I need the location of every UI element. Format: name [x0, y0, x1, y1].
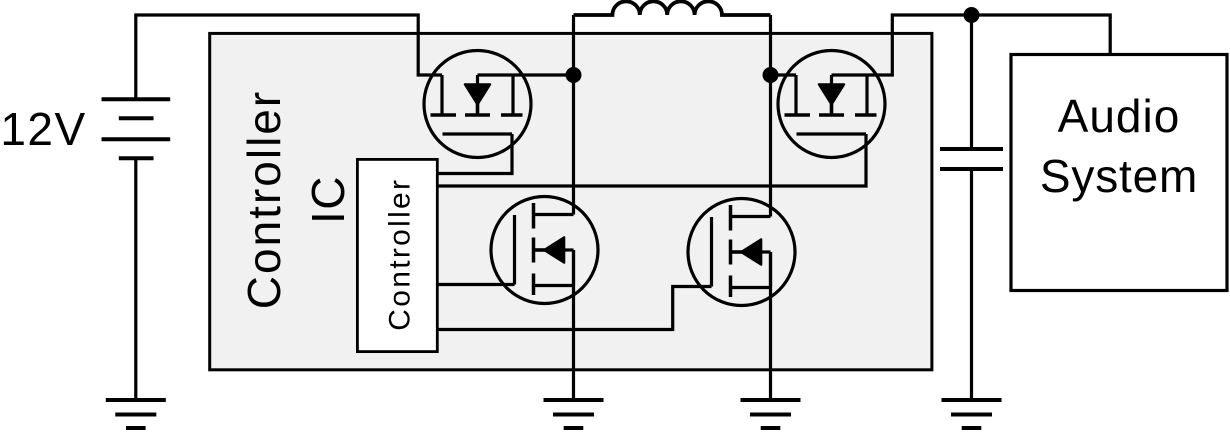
wire: Q1 drain to switch node SW1	[513, 73, 574, 76]
transistor Q2 (high-side boost MOSFET)	[778, 51, 885, 158]
ground (Q3 source)	[544, 400, 604, 428]
node SW1 junction dot	[566, 67, 582, 83]
node VOUT junction dot	[964, 7, 980, 23]
wire: Q3 source to ground	[572, 250, 575, 400]
Audio System box	[1011, 55, 1227, 291]
wire: Q2 drain to output rail to Audio System	[867, 15, 1110, 75]
transistor Q1 (high-side buck MOSFET)	[424, 51, 531, 158]
wire: Q4 gate to controller	[438, 287, 712, 330]
Controller IC box	[210, 33, 932, 369]
battery V1 12V	[102, 99, 171, 158]
svg-text:12V: 12V	[0, 103, 86, 155]
svg-text:Controller: Controller	[238, 90, 290, 309]
controller sub-block U1	[357, 159, 437, 351]
ground (battery)	[106, 400, 166, 428]
capacitor C1	[940, 149, 1003, 169]
wire: output node to capacitor C1	[970, 15, 973, 149]
wire: Q3 gate to controller	[438, 283, 515, 286]
transistor Q3 (low-side buck MOSFET)	[491, 197, 598, 304]
transistor Q4 (low-side boost MOSFET)	[688, 199, 795, 306]
wire: capacitor C1 to ground	[970, 169, 973, 400]
svg-text:IC: IC	[302, 175, 354, 224]
wire: battery negative to ground	[134, 158, 137, 400]
svg-text:Controller: Controller	[383, 178, 416, 331]
wire: rail SW1 vertical (inductor left to Q3 drain)	[572, 15, 575, 215]
wire: Q4 source to ground	[769, 252, 772, 400]
ground (capacitor)	[942, 400, 1002, 428]
wire: rail SW2 vertical (inductor right to Q4 drain)	[769, 15, 772, 217]
wire: Q1 gate to controller	[438, 134, 512, 174]
ground (Q4 source)	[741, 400, 801, 428]
svg-text:System: System	[1040, 150, 1198, 202]
wire: SW2 node to Q2 source	[771, 73, 797, 76]
inductor L1	[574, 1, 771, 15]
node SW2 junction dot	[763, 67, 779, 83]
wire: battery positive to top rail to Q1 source	[136, 15, 442, 99]
svg-text:Audio: Audio	[1058, 90, 1181, 142]
wire: Q2 gate to controller	[438, 134, 866, 186]
